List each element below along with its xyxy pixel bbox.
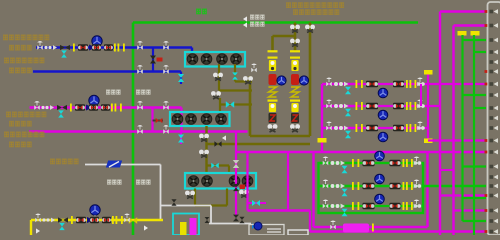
actuator valve on yellow line x127: [124, 214, 130, 223]
text machine-room-out bottom: [107, 180, 122, 185]
water tank 2 outline: [288, 230, 308, 235]
fan coil box 4 border: [185, 173, 256, 189]
text machine-room-in top: [250, 22, 265, 27]
pipe olive B supply y81.5: [235, 80, 252, 82]
pipe olive A vertical from fan box1: [218, 64, 220, 91]
red status box: [157, 58, 163, 62]
pipe blue B1 drop to fan box: [191, 48, 193, 54]
valve on white manifold: [171, 199, 176, 205]
text label inlet 98deg: [9, 45, 32, 51]
pipe magenta branch y203 with cyan valve: [248, 202, 267, 204]
valve at magenta vertical bottom: [233, 215, 239, 222]
manifold port y210.5: [485, 208, 499, 213]
fan 1-4: [231, 54, 242, 65]
green row 3 line y206: [319, 205, 424, 207]
pipe green row y221: [463, 220, 487, 222]
valve on blue crossover: [150, 56, 156, 64]
pipe olive bottom U horizontal: [195, 204, 227, 206]
fan 1-3: [217, 54, 228, 65]
pipe magenta long header y152: [236, 151, 486, 153]
pipe magenta top feed y11.5: [440, 10, 486, 12]
fan coil box 1 border: [185, 52, 245, 67]
pipe white tap water y164.5: [85, 164, 161, 166]
valve cluster on magenta supply M1 with pump: [34, 101, 40, 110]
pipe magenta row y195.5: [440, 194, 486, 196]
text label sludge-dry heat recovery: [4, 58, 44, 64]
valve pair on olive A: [213, 73, 223, 81]
pipe white manifold y223.5: [209, 223, 251, 225]
manifold port y108: [490, 106, 499, 111]
pipe magenta vertical x310 to bottom line: [309, 211, 311, 232]
pipe olive branch y104.5: [220, 103, 252, 105]
pipe blue return B2 horizontal: [33, 70, 181, 72]
valve blue cyan on white line: [252, 223, 260, 229]
flow arrow on return header: [222, 135, 226, 140]
pipe green vertical x474: [473, 35, 475, 235]
text label top title line2: [293, 9, 339, 15]
fan 4-3: [229, 176, 240, 187]
pipe magenta feed y25.5: [454, 24, 487, 26]
green row 2 components: [319, 185, 352, 187]
pipe olive return header y144: [207, 143, 311, 145]
tank yellow column: [180, 222, 187, 235]
manifold port y231.5: [485, 229, 499, 234]
actuator valve pair on B1 x140: [137, 41, 143, 50]
manifold port y52: [490, 50, 499, 55]
pipe magenta loop right vertical: [180, 108, 182, 133]
manifold port y62: [490, 60, 499, 65]
magenta tank bar: [343, 224, 369, 233]
text label sludge-dry hot water supply: [3, 35, 49, 41]
pipe magenta row y140.5 to manifold: [428, 139, 486, 141]
pipe green main riser vertical: [132, 23, 135, 236]
pipe olive stub x272.5: [271, 36, 274, 51]
valve dark on magenta vertical top: [233, 184, 239, 191]
green row 1 components y163: [319, 162, 352, 164]
valve pair right of fan box4: [239, 190, 249, 198]
manifold strip border: [488, 2, 500, 235]
damper on magenta riser: [318, 138, 327, 143]
pipe magenta link y170: [440, 169, 454, 171]
tank magenta column: [190, 218, 197, 235]
valve on white vertical x211: [205, 217, 210, 223]
valve on olive return header: [214, 141, 221, 147]
fan 4-2: [202, 176, 213, 187]
fan 2-2: [186, 114, 197, 125]
pipe magenta bottom line y231.5: [310, 230, 486, 232]
manifold port y40: [490, 38, 499, 43]
manifold port y11.5: [485, 9, 499, 14]
text label inlet 60deg: [9, 142, 32, 148]
pipe magenta vertical x421 link rows: [420, 84, 422, 106]
green row 2 line y186 long: [319, 185, 487, 187]
actuator valve pair on B2 x166: [163, 65, 169, 74]
pump branch row 1 magenta y84: [322, 83, 486, 85]
pipe white vertical x211: [210, 206, 212, 224]
pipe magenta riser x322: [321, 84, 323, 152]
pipe magenta vertical x453.5: [452, 26, 454, 236]
pipe green row y108: [474, 107, 486, 109]
damper bottom x428: [424, 139, 433, 144]
pipe olive drop x229 into fan box 4: [228, 166, 230, 174]
valve pair on olive riser x310 y30: [305, 25, 315, 33]
pipe magenta return M2 horizontal: [29, 130, 248, 132]
fan coil box 2 border: [170, 112, 230, 126]
pump branch row 2 magenta y106: [322, 105, 441, 107]
manifold port y71.5: [485, 69, 499, 74]
pipe magenta loop left vertical: [151, 108, 153, 133]
actuator valve at frame top left: [251, 64, 257, 73]
valve cyan on branch y165: [211, 163, 219, 169]
fan 4-1: [188, 176, 199, 187]
valve pair on olive mid vertical upper: [199, 134, 209, 142]
valve cyan on olive B: [232, 72, 238, 79]
flow arrows at green header: [243, 16, 247, 21]
manifold port y152: [485, 150, 499, 155]
red status box on magenta vertical: [240, 185, 246, 190]
yellow bracket right of tank bar: [372, 224, 374, 232]
pipe olive below fan box4 left: [194, 189, 196, 206]
valve red on loop stub: [153, 120, 164, 122]
valve cluster on yellow pipeline with pump: [35, 214, 41, 223]
pipe magenta vertical x236 to fan box4: [235, 132, 237, 216]
pipe green row y198: [463, 197, 487, 199]
pipe magenta vertical x288: [287, 152, 289, 211]
pipe magenta vertical x440: [439, 12, 441, 236]
text machine-room-out middle: [106, 90, 121, 95]
pipe olive branch y165 to fan box 4: [207, 164, 230, 166]
manifold port y186: [490, 184, 499, 189]
heat pump assembly B: [290, 50, 300, 52]
manifold port y25.5: [485, 23, 499, 28]
fan 4-4: [242, 176, 253, 187]
water tank white outline: [249, 225, 284, 236]
valve pair on olive riser x295 y44: [290, 39, 300, 47]
pipe olive A return y90.5: [219, 89, 252, 91]
valve cluster on blue supply B1 with pump: [37, 41, 43, 50]
fan 2-4: [216, 114, 227, 125]
manifold port y221: [490, 219, 499, 224]
flow arrows near green riser bottom: [144, 225, 148, 230]
manifold port y128: [490, 126, 499, 131]
valve pair below fan box4 left: [185, 191, 195, 199]
fan 1-2: [201, 54, 212, 65]
text machine-room-out top: [250, 15, 265, 20]
damper green supply A: [458, 31, 467, 36]
pipe olive mid vertical x206.5: [205, 126, 207, 173]
valve yellow at green riser crossing: [129, 217, 137, 224]
pipe olive riser from green header x295: [294, 23, 297, 52]
green row 3 components: [319, 205, 352, 207]
valve gray on magenta vertical: [233, 160, 239, 168]
valve pair on olive riser x295 y30: [290, 25, 300, 33]
pipe olive header y36: [273, 35, 297, 38]
fan 2-1: [172, 114, 183, 125]
flow meter blue on tap line: [106, 161, 122, 168]
text label inlet 75deg: [9, 121, 32, 127]
valve cyan on olive branch: [226, 101, 234, 107]
green box outline: [319, 163, 424, 213]
tank box cyan border: [173, 214, 199, 236]
pump blue on tank top: [254, 222, 262, 230]
valve pair on olive B: [243, 76, 253, 84]
magenta loop box bottom y227: [314, 226, 428, 228]
pipe magenta vertical x428 with dampers: [427, 74, 429, 141]
manifold port y177: [490, 175, 499, 180]
pipe yellow bottom horizontal: [31, 219, 163, 221]
damper top x428: [424, 70, 433, 75]
manifold port y118: [490, 116, 499, 121]
pipe olive drop into fan box 2: [219, 98, 221, 111]
actuator valve on loop bottom: [330, 221, 336, 230]
pipe magenta M2 end drop: [180, 132, 182, 145]
pipe olive riser x310 frame right edge: [309, 23, 312, 137]
pipe blue supply B1 horizontal: [36, 46, 192, 48]
pipe green vertical x462.5: [461, 35, 463, 221]
actuator valve pair on M2 x166: [163, 125, 169, 134]
valve on white y223.5: [239, 217, 244, 223]
actuator valve pair on M1 x166: [163, 101, 169, 110]
flow arrow below yellow line: [36, 228, 40, 233]
text machine-room-in middle: [136, 90, 151, 95]
text label top title line1: [286, 2, 344, 8]
manifold port y140.5: [485, 138, 499, 143]
heat pump frame bottom edge: [250, 135, 310, 138]
actuator valve pair on M2 x140: [137, 125, 143, 134]
pipe olive bottom U right vertical: [226, 189, 228, 206]
text machine-room-in bottom: [136, 180, 151, 185]
text label heat pump green: [196, 9, 207, 15]
pipe green row y95: [463, 94, 487, 96]
pipe white manifold y205.5: [161, 205, 212, 207]
text label sludge-dry return: [4, 132, 44, 138]
valve cyan on M2 drop: [178, 135, 184, 143]
fan 2-3: [201, 114, 212, 125]
pipe blue crossover vertical: [152, 48, 154, 72]
pipe magenta row y210.5 right: [454, 209, 487, 211]
text label tap water pipe: [50, 159, 79, 165]
pipe magenta vertical x247.5: [246, 152, 248, 211]
magenta loop box right vertical x427.5: [426, 152, 428, 227]
pipe magenta manifold y210.5: [248, 209, 311, 211]
manifold port y195.5: [485, 193, 499, 198]
damper green supply B: [471, 31, 480, 36]
pipe blue B2 end drop: [180, 72, 182, 85]
water tank level lines: [267, 228, 281, 230]
manifold port y166.5: [490, 164, 499, 169]
pipe yellow bottom start drop: [30, 220, 32, 235]
pipe olive B vertical from fan box1: [234, 64, 236, 82]
manifold port y95: [490, 93, 499, 98]
pipe green header horizontal (hot source): [133, 21, 418, 24]
actuator valve pair on M1 x140: [137, 101, 143, 110]
pipe green row y166.5: [463, 165, 487, 167]
magenta loop box left vertical x313.5: [312, 152, 314, 227]
valve pair above fan box 2 feed: [211, 91, 221, 99]
fan 1-1: [187, 54, 198, 65]
pipe white vertical x160.5: [160, 165, 162, 220]
actuator valve pair on B1 x166: [163, 41, 169, 50]
actuator valve pair on B2 x140: [137, 65, 143, 74]
text label sludge-dry heat recovery 2: [6, 112, 46, 118]
pipe green row y52: [474, 51, 486, 53]
pump branch row 3 magenta y128: [322, 127, 428, 129]
valve pair on olive mid vertical lower: [199, 150, 209, 158]
pipe magenta supply M1 horizontal: [30, 106, 182, 108]
pipe green row y40: [463, 39, 487, 41]
manifold port y84: [485, 82, 499, 87]
heat pump frame left edge: [249, 76, 252, 136]
text label inlet 40deg: [9, 68, 32, 74]
valve cyan on B2 drop: [178, 74, 184, 82]
heat pump assembly A: [268, 50, 278, 52]
